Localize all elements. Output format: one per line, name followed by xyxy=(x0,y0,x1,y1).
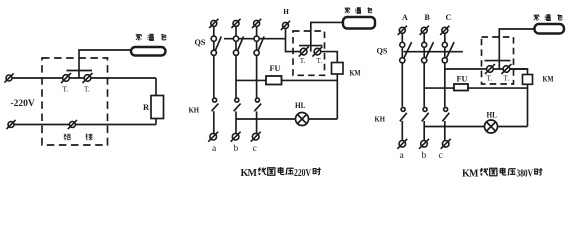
fuse FU (right) xyxy=(454,84,468,91)
svg-text:HL: HL xyxy=(487,111,498,120)
fuse wire FU (right) xyxy=(424,87,527,89)
terminal b bottom (middle) xyxy=(231,132,241,142)
svg-text:C: C xyxy=(446,13,452,22)
KM main contact pole C (right) xyxy=(444,107,448,111)
svg-text:FU: FU xyxy=(270,64,281,73)
svg-text:T.: T. xyxy=(84,86,90,94)
svg-text:QS: QS xyxy=(195,37,206,47)
svg-text:c: c xyxy=(439,151,443,161)
svg-text:T.: T. xyxy=(300,57,306,65)
svg-text:KH: KH xyxy=(375,115,386,124)
switch QS pole B (right) xyxy=(422,42,427,47)
terminal C top xyxy=(440,26,449,35)
switch QS pole A (right) xyxy=(400,42,405,47)
thermostat contact T left xyxy=(61,73,71,83)
wire phase C to thermostat (right) xyxy=(445,68,528,70)
KM coil (middle) xyxy=(332,63,344,75)
phase line A vertical xyxy=(401,30,403,107)
KM coil (right) xyxy=(523,75,533,85)
thermostat contact T right xyxy=(83,73,93,83)
dashed box (thermostat body, left) xyxy=(42,58,108,145)
switch QS pole b xyxy=(233,36,238,41)
svg-text:FU: FU xyxy=(457,74,468,83)
svg-text:c: c xyxy=(253,144,257,154)
terminal short-link on bottom wire xyxy=(68,120,77,129)
svg-text:QS: QS xyxy=(377,46,388,56)
terminal b bottom (right) xyxy=(419,139,429,149)
thermostat contact T left (right) xyxy=(485,64,495,74)
terminal a bottom (middle) xyxy=(208,132,218,142)
svg-text:b: b xyxy=(234,144,239,154)
tap wire to H xyxy=(224,38,286,40)
terminal c bottom (middle) xyxy=(251,132,261,142)
terminal c bottom (right) xyxy=(441,139,451,149)
fuse FU (middle) xyxy=(266,76,282,85)
svg-text:KH: KH xyxy=(189,106,200,115)
contact bridge bar (middle) xyxy=(299,45,323,47)
svg-text:380V: 380V xyxy=(517,169,534,180)
svg-text:b: b xyxy=(422,151,427,161)
svg-text:T.: T. xyxy=(487,75,493,83)
terminal A top xyxy=(398,26,407,35)
svg-text:H: H xyxy=(283,8,289,16)
wire top: supply to thermostat and resistor xyxy=(9,77,156,79)
phase line C vertical xyxy=(444,30,446,107)
KM main contact pole b (middle) xyxy=(235,98,239,102)
sensing bulb capsule (left) xyxy=(131,47,166,56)
terminal a bottom (right) xyxy=(397,139,407,149)
terminal left bottom xyxy=(6,120,15,129)
lamp branch wire (right) xyxy=(424,126,527,128)
wire KM coil down (right) xyxy=(527,84,529,126)
lamp HL (middle) xyxy=(296,113,309,126)
svg-text:220V: 220V xyxy=(294,168,312,179)
terminal H xyxy=(281,21,290,30)
phase line a vertical xyxy=(213,23,215,98)
wire KM coil down xyxy=(336,74,338,119)
label 感温包 (right) xyxy=(534,15,540,20)
terminal b top xyxy=(231,19,240,28)
KM main contact pole B (right) xyxy=(423,107,427,111)
lamp branch wire (middle) xyxy=(236,118,337,120)
phase line c vertical xyxy=(256,23,258,98)
switch QS pole a xyxy=(211,36,216,41)
terminal left top xyxy=(4,73,13,82)
phase line B vertical xyxy=(423,30,425,107)
thermostat contact T left (middle) xyxy=(299,47,309,57)
svg-text:HL: HL xyxy=(295,101,306,110)
label 感温包 (left) xyxy=(136,34,142,40)
wire thermostat to KM coil xyxy=(321,52,338,63)
capillary stem to bulb (right) xyxy=(499,29,534,69)
thermostat contact T right (right) xyxy=(501,64,511,74)
caption KM coil 380V xyxy=(462,168,542,180)
resistor R xyxy=(151,96,164,119)
svg-text:B: B xyxy=(425,13,431,22)
svg-text:-220V: -220V xyxy=(11,99,35,109)
wire thermostat to KM coil (right) xyxy=(510,69,528,75)
switch QS pole C (right) xyxy=(442,42,447,47)
wire H down and to thermostat xyxy=(286,28,304,51)
contact bridge bar (right) xyxy=(485,60,511,62)
phase line b vertical xyxy=(235,23,237,98)
contact bridge bar xyxy=(67,70,93,72)
label 感温包 (middle) xyxy=(345,8,350,13)
wire: resistor bottom xyxy=(155,119,157,125)
terminal B top xyxy=(420,26,429,35)
dashed box thermostat (right) xyxy=(482,37,514,84)
svg-text:KM: KM xyxy=(462,169,479,180)
svg-text:KM: KM xyxy=(241,168,258,179)
thermostat contact T right (middle) xyxy=(312,47,322,57)
label 短接 xyxy=(64,134,71,141)
caption KM coil 220V xyxy=(241,167,321,179)
terminal a top xyxy=(209,19,218,28)
svg-text:A: A xyxy=(402,13,408,22)
svg-text:T.: T. xyxy=(504,75,510,83)
terminal c top xyxy=(252,19,261,28)
wire: down to resistor R xyxy=(155,78,157,96)
sensing bulb capsule (middle) xyxy=(343,17,375,29)
tap wire across blades xyxy=(404,51,463,53)
fuse wire FU (middle) xyxy=(236,79,337,81)
svg-text:R: R xyxy=(143,102,150,112)
KM main contact pole a (middle) xyxy=(213,98,217,102)
svg-text:T.: T. xyxy=(317,57,323,65)
KM main contact pole c (middle) xyxy=(255,98,259,102)
svg-text:KM: KM xyxy=(350,69,361,78)
KM main contact pole A (right) xyxy=(401,107,405,111)
switch QS pole c xyxy=(254,36,259,41)
svg-text:T.: T. xyxy=(63,86,69,94)
svg-text:KM: KM xyxy=(543,75,554,84)
lamp HL (right) xyxy=(485,120,498,133)
wire bottom return xyxy=(11,124,156,126)
sensing bulb capsule (right) xyxy=(535,24,565,34)
capillary stem to bulb xyxy=(79,50,131,78)
dashed box thermostat (middle) xyxy=(293,31,325,75)
capillary stem to bulb (middle) xyxy=(311,22,343,51)
